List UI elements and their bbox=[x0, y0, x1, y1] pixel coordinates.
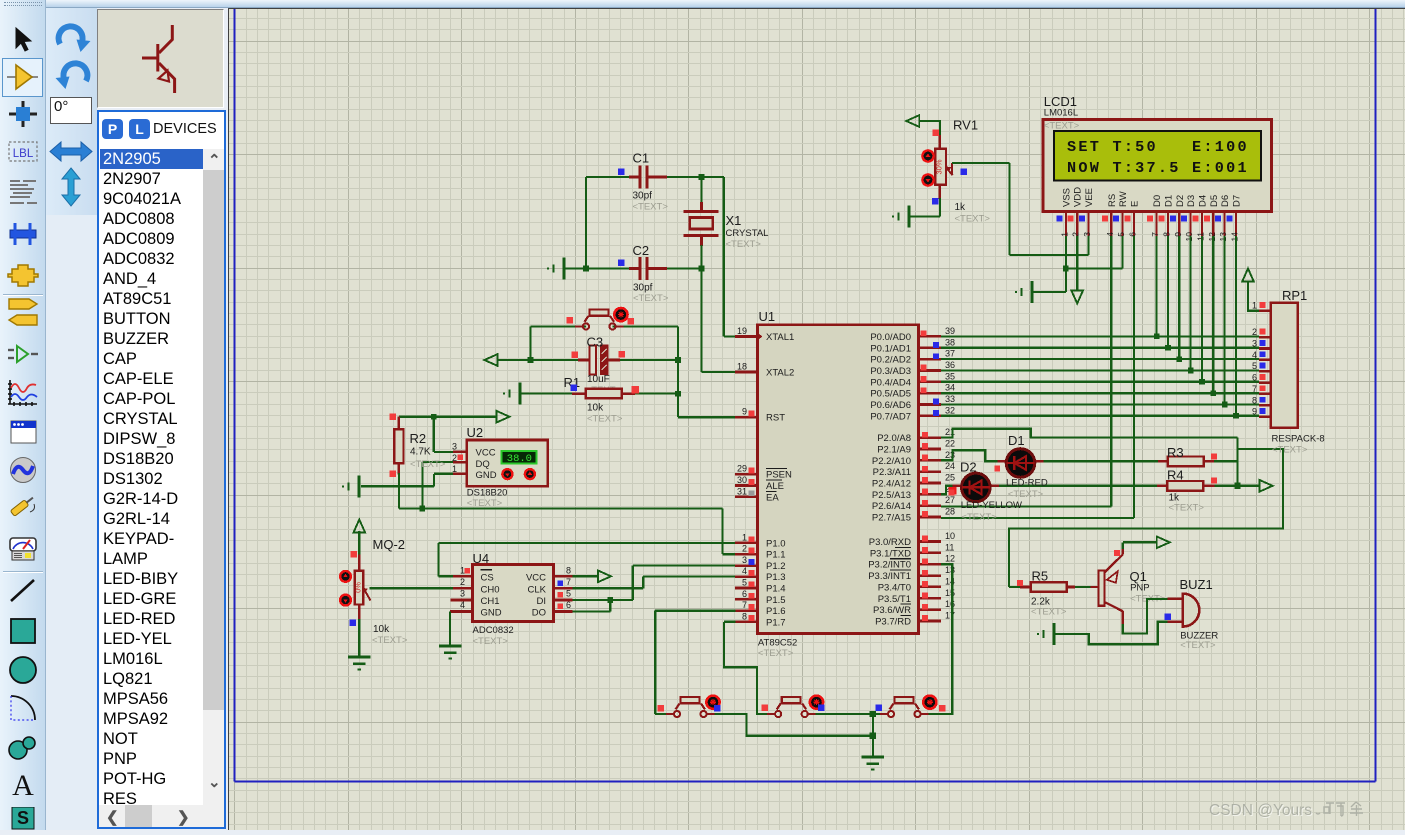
junction D5 node bbox=[1211, 390, 1217, 396]
svg-text:2: 2 bbox=[742, 544, 747, 554]
marker LCD pin 2 bbox=[1068, 216, 1074, 222]
marker R4 red bbox=[1211, 478, 1217, 484]
U1 pin 10 P3.0/RXD stub bbox=[919, 540, 942, 543]
marker U1 pin26 big red bbox=[948, 486, 956, 494]
junction DQ node bbox=[420, 506, 426, 512]
wire gnd to VSS bbox=[1032, 291, 1066, 293]
resistor R5 bbox=[1031, 582, 1067, 592]
svg-text:14: 14 bbox=[1230, 232, 1240, 242]
svg-text:28: 28 bbox=[945, 507, 955, 517]
resistor R3 bbox=[1168, 457, 1204, 467]
svg-text:1: 1 bbox=[742, 532, 747, 542]
svg-text:<TEXT>: <TEXT> bbox=[633, 202, 669, 213]
marker U1 left pin bbox=[749, 559, 755, 565]
wire button right bbox=[613, 325, 678, 327]
svg-text:10k: 10k bbox=[587, 403, 604, 414]
svg-text:39: 39 bbox=[945, 326, 955, 336]
toolbar icon mirror horizontal bbox=[48, 137, 94, 166]
node XTAL1 net: wire C1 left to plate bbox=[586, 176, 639, 178]
RP1 pin 2 stub bbox=[1259, 336, 1271, 339]
marker LCD pin 1 bbox=[1056, 216, 1062, 222]
wire R3 right bbox=[1204, 460, 1214, 463]
svg-text:VEE: VEE bbox=[1084, 188, 1095, 207]
respack RP1 body bbox=[1271, 303, 1298, 428]
wire buzzer bottom stub bbox=[1167, 621, 1182, 623]
toolbar icon component mode (selected) bbox=[6, 63, 40, 91]
svg-text:0%: 0% bbox=[354, 582, 363, 593]
svg-text:5: 5 bbox=[1252, 361, 1257, 371]
svg-text:33: 33 bbox=[945, 394, 955, 404]
wire D1 right to R3 bbox=[1035, 460, 1044, 462]
marker LCD pin 11 bbox=[1193, 216, 1199, 222]
svg-text:8: 8 bbox=[566, 565, 571, 575]
svg-text:7: 7 bbox=[1150, 232, 1160, 237]
marker U1 left pin bbox=[749, 479, 755, 485]
junction D0 node bbox=[1154, 334, 1160, 340]
U1 pin 5 P1.4 stub bbox=[735, 587, 758, 590]
marker K2 red bbox=[762, 705, 769, 712]
svg-text:MQ-2: MQ-2 bbox=[373, 537, 406, 552]
marker U1 left pin bbox=[749, 490, 755, 496]
wire buzzer top stub bbox=[1168, 598, 1183, 600]
wire R1 right to vertical bbox=[622, 393, 678, 395]
wire RV1 wiper drop bbox=[1008, 163, 1010, 255]
wire P0.7 to RP1 bbox=[941, 415, 1259, 417]
mcu U1 AT89C52 body bbox=[757, 325, 918, 634]
ground U4 bbox=[439, 645, 461, 648]
svg-text:3: 3 bbox=[452, 441, 457, 451]
U1 pin 23 P2.2/A10 stub bbox=[919, 459, 942, 462]
svg-text:RS: RS bbox=[1107, 194, 1118, 207]
marker U1 left pin bbox=[749, 468, 755, 474]
svg-text:7: 7 bbox=[566, 577, 571, 587]
U1 pin 37 P0.2/AD2 stub bbox=[919, 358, 942, 361]
push button K2 bbox=[767, 713, 775, 715]
svg-text:C3: C3 bbox=[587, 335, 604, 350]
svg-text:P0.5/AD5: P0.5/AD5 bbox=[870, 389, 911, 400]
svg-text:1: 1 bbox=[460, 565, 465, 575]
terminal arrow right (U2 vcc) bbox=[497, 411, 510, 423]
svg-text:24: 24 bbox=[945, 461, 955, 471]
terminal arrow right (R4) bbox=[1260, 480, 1273, 492]
U2 down button bbox=[502, 469, 512, 479]
wire P0.3 to RP1 bbox=[941, 369, 1259, 371]
wire ground drop buttons bbox=[872, 714, 874, 757]
toolbar icon 2d arc bbox=[6, 694, 40, 722]
LCD pin 4 stub bbox=[1110, 212, 1112, 236]
U1 pin 39 P0.0/AD0 stub bbox=[919, 335, 942, 338]
wire RV1 bottom bbox=[939, 185, 942, 199]
svg-text:P1.7: P1.7 bbox=[766, 617, 786, 628]
U1 pin 38 P0.1/AD1 stub bbox=[919, 346, 942, 349]
wire D1 drop bbox=[1167, 236, 1169, 348]
marker RP1 pin 3 bbox=[1260, 340, 1266, 346]
svg-text:<TEXT>: <TEXT> bbox=[726, 239, 762, 250]
wire RV1 top bbox=[919, 121, 940, 137]
ground Q1 bbox=[1053, 623, 1056, 645]
wire U4 DO bbox=[554, 610, 573, 613]
terminal arrow left (reset) bbox=[484, 354, 497, 366]
svg-text:1: 1 bbox=[1059, 232, 1069, 237]
wire D2 right to R4 bbox=[990, 485, 999, 487]
marker K2 blue bbox=[818, 705, 825, 712]
marker U1 right pin bbox=[921, 365, 927, 371]
marker U1 right pin bbox=[922, 593, 928, 599]
wire DQ riser to P1.1 bbox=[721, 509, 723, 555]
U1 pin 21 P2.0/A8 stub bbox=[919, 436, 942, 439]
wire U4 GND drop bbox=[449, 612, 451, 647]
U1 pin 24 P2.3/A11 stub bbox=[919, 470, 942, 473]
U1 pin 8 P1.7 stub bbox=[735, 620, 758, 623]
wire U4 GND stub bbox=[450, 610, 472, 613]
junction C2 left node bbox=[583, 266, 589, 272]
ground buttons bbox=[862, 756, 884, 759]
svg-text:DQ: DQ bbox=[476, 459, 490, 470]
toolbar icon generator bbox=[6, 456, 40, 484]
ground near C2 bbox=[563, 258, 566, 280]
wire Q1 emitter up bbox=[1122, 542, 1124, 549]
wire gnd to R1 bbox=[520, 393, 572, 395]
wire gnd to C2 bbox=[564, 267, 639, 269]
svg-text:D7: D7 bbox=[1232, 195, 1243, 207]
svg-text:17: 17 bbox=[945, 611, 955, 621]
svg-text:4: 4 bbox=[460, 600, 465, 610]
toolbar icon device pin bbox=[6, 341, 40, 369]
toolbar icon 2d text bbox=[6, 771, 40, 799]
wire P2.6 to RS bbox=[941, 505, 1111, 507]
RP1 pin 7 stub bbox=[1259, 393, 1271, 396]
RP1 pin 4 stub bbox=[1259, 359, 1271, 362]
U1 pin 6 P1.5 stub bbox=[735, 598, 758, 601]
svg-text:8: 8 bbox=[1162, 232, 1172, 237]
wire RP1 pin1 bbox=[1248, 281, 1259, 311]
toolbar icon mirror vertical bbox=[57, 167, 85, 207]
terminal arrow down (VDD) bbox=[1071, 291, 1083, 304]
svg-text:10uF: 10uF bbox=[587, 374, 610, 385]
marker C1 blue bbox=[618, 168, 625, 175]
svg-text:6: 6 bbox=[566, 600, 571, 610]
wire R1 right stub bbox=[622, 392, 635, 395]
marker U1 right pin bbox=[921, 376, 927, 382]
svg-text:2: 2 bbox=[1252, 327, 1257, 337]
marker LCD pin 6 bbox=[1125, 216, 1131, 222]
wire P2.5 to D2 bbox=[941, 486, 952, 495]
orientation toolbar bbox=[46, 8, 97, 215]
wire button3 right riser to P3.2 bbox=[925, 564, 952, 714]
wire U4 CLK bbox=[554, 587, 573, 590]
svg-text:RW: RW bbox=[1118, 191, 1129, 207]
svg-text:P1.2: P1.2 bbox=[766, 561, 786, 572]
svg-text:P2.5/A13: P2.5/A13 bbox=[872, 490, 911, 501]
marker R5 red bbox=[1017, 580, 1023, 586]
svg-text:RST: RST bbox=[766, 413, 785, 424]
wire VEE drop bbox=[1087, 236, 1089, 255]
ground MQ2 bbox=[348, 656, 370, 659]
marker C2 blue bbox=[618, 260, 625, 267]
marker U1 right pin bbox=[922, 432, 928, 438]
vertical scrollbar bbox=[203, 149, 224, 805]
preview PNP transistor symbol bbox=[97, 9, 224, 108]
toolbar icon 2d box bbox=[6, 617, 40, 645]
RP1 pin 9 stub bbox=[1259, 415, 1271, 418]
LCD pin 11 stub bbox=[1201, 212, 1203, 236]
wire P0.2 to RP1 bbox=[941, 358, 1259, 360]
svg-text:<TEXT>: <TEXT> bbox=[961, 512, 997, 523]
svg-text:<TEXT>: <TEXT> bbox=[410, 459, 446, 470]
marker LCD pin 7 bbox=[1147, 216, 1153, 222]
svg-text:35: 35 bbox=[945, 371, 955, 381]
junction R1 node bbox=[675, 391, 681, 397]
selected tool highlight box bbox=[2, 58, 43, 97]
toolbar icon 2d line bbox=[6, 577, 40, 605]
marker U1 left pin bbox=[749, 615, 755, 621]
svg-text:4: 4 bbox=[1105, 232, 1115, 237]
svg-text:CS: CS bbox=[481, 572, 494, 583]
capacitor C3 (electrolytic) bbox=[578, 359, 590, 362]
svg-text:<TEXT>: <TEXT> bbox=[1031, 607, 1067, 618]
svg-text:VCC: VCC bbox=[526, 572, 546, 583]
U1 pin 34 P0.5/AD5 stub bbox=[919, 392, 942, 395]
svg-text:11: 11 bbox=[945, 542, 954, 552]
svg-text:P2.6/A14: P2.6/A14 bbox=[872, 501, 911, 512]
component U4 ADC0832 body bbox=[473, 565, 554, 622]
wire X1 top lead bbox=[700, 177, 702, 202]
led D1 LED-RED bbox=[1006, 449, 1035, 478]
marker MQ2 blue bbox=[350, 619, 357, 626]
marker U1 right pin bbox=[922, 581, 928, 587]
wire D5 drop bbox=[1212, 236, 1214, 393]
svg-text:38.0: 38.0 bbox=[507, 453, 532, 465]
U1 pin 33 P0.6/AD6 stub bbox=[919, 403, 942, 406]
wire U2 VCC drop bbox=[433, 417, 435, 452]
pot MQ-2 bottom bbox=[358, 605, 361, 621]
svg-text:LED-RED: LED-RED bbox=[1006, 478, 1048, 489]
svg-text:14: 14 bbox=[945, 576, 955, 586]
LCD pin 1 stub bbox=[1065, 212, 1067, 236]
U1 pin 2 P1.1 stub bbox=[735, 553, 758, 556]
svg-text:P0.6/AD6: P0.6/AD6 bbox=[870, 400, 911, 411]
transistor Q1 base bar bbox=[1099, 571, 1105, 606]
wire button left vertical bbox=[529, 326, 531, 360]
marker RP1 pin 2 bbox=[1260, 329, 1266, 335]
LCD pin 12 stub bbox=[1212, 212, 1214, 236]
svg-text:12: 12 bbox=[1207, 232, 1217, 242]
marker U1 right pin bbox=[922, 547, 928, 553]
wire D7 drop bbox=[1235, 236, 1237, 416]
svg-text:EA: EA bbox=[766, 492, 779, 503]
MQ2 down button bbox=[340, 595, 351, 606]
svg-text:12: 12 bbox=[945, 554, 955, 564]
marker RP1 pin 1 bbox=[1260, 302, 1266, 308]
svg-text:<TEXT>: <TEXT> bbox=[633, 293, 669, 304]
wire D2 lead left bbox=[953, 485, 962, 487]
horizontal scrollbar bbox=[99, 805, 224, 827]
svg-text:37: 37 bbox=[945, 349, 955, 359]
svg-text:32: 32 bbox=[945, 405, 955, 415]
marker LCD pin 5 bbox=[1113, 216, 1119, 222]
wire gnd to buzzer bbox=[1054, 622, 1168, 645]
wire E drop bbox=[1133, 236, 1135, 518]
component U2 DS18B20 body bbox=[467, 440, 548, 486]
marker RP1 pin 9 bbox=[1260, 408, 1266, 414]
svg-text:P1.6: P1.6 bbox=[766, 606, 786, 617]
wire MQ2 wiper to CH0 bbox=[370, 587, 454, 589]
marker reset red1 bbox=[567, 317, 574, 324]
svg-text:<TEXT>: <TEXT> bbox=[1180, 640, 1216, 651]
marker U1 right pin bbox=[922, 489, 928, 495]
svg-text:P2.0/A8: P2.0/A8 bbox=[877, 433, 911, 444]
Q1 emitter arrowhead bbox=[1107, 571, 1118, 583]
svg-text:3: 3 bbox=[460, 589, 465, 599]
toolbar icon voltage probe bbox=[6, 492, 40, 520]
svg-text:P0.3/AD3: P0.3/AD3 bbox=[870, 366, 911, 377]
watermark CSDN bbox=[1209, 800, 1399, 822]
wire CLK riser to P1.3 bbox=[642, 577, 644, 589]
wire into XTAL1 pin bbox=[724, 335, 736, 337]
marker MQ2 red bbox=[350, 551, 357, 558]
wire Q1 collector to buzzer bbox=[1123, 599, 1168, 634]
wire R4 right bbox=[1203, 484, 1214, 487]
junction C3 node bbox=[675, 357, 681, 363]
toolbar icon graph mode bbox=[6, 379, 40, 407]
svg-text:ADC0832: ADC0832 bbox=[473, 625, 514, 636]
U2 display 38.0 bbox=[502, 451, 537, 464]
toolbar icon rotate clockwise bbox=[54, 21, 92, 56]
resistor R1 bbox=[586, 389, 622, 399]
wire DQ long run bbox=[399, 507, 723, 509]
pot MQ-2 body bbox=[355, 571, 364, 605]
U1 pin 26 P2.5/A13 stub bbox=[919, 493, 942, 496]
sheet border bottom bbox=[235, 781, 1376, 783]
buzzer BUZ1 bbox=[1183, 594, 1200, 627]
RP1 pin 1 stub bbox=[1259, 309, 1271, 312]
RP1 pin 6 stub bbox=[1259, 381, 1271, 384]
svg-text:P2.3/A11: P2.3/A11 bbox=[873, 467, 911, 478]
svg-text:27: 27 bbox=[945, 495, 955, 505]
svg-text:PNP: PNP bbox=[1130, 583, 1150, 594]
wire R5 to Q1 base bbox=[1066, 586, 1075, 589]
U1 pin 18 XTAL2 stub bbox=[735, 371, 758, 374]
sheet border left bbox=[234, 9, 236, 782]
svg-text:4: 4 bbox=[1252, 350, 1257, 360]
svg-text:XTAL2: XTAL2 bbox=[766, 368, 794, 379]
marker K3 blue bbox=[875, 705, 882, 712]
svg-text:P0.2/AD2: P0.2/AD2 bbox=[870, 355, 911, 366]
junction VSS node bbox=[1063, 266, 1069, 272]
toolbar icon junction dot mode bbox=[6, 100, 40, 128]
marker D1 red bbox=[994, 466, 1000, 472]
button K1 actuator bbox=[706, 696, 719, 709]
svg-text:VSS: VSS bbox=[1061, 188, 1072, 207]
marker C3 red right bbox=[619, 351, 626, 358]
marker U4 pin5 red bbox=[558, 592, 564, 598]
svg-text:P2.2/A10: P2.2/A10 bbox=[872, 456, 911, 467]
marker R3 red bbox=[1211, 454, 1217, 460]
wire C3 right to vertical bbox=[608, 359, 678, 361]
wire R2 bottom bbox=[398, 463, 401, 474]
LCD pin 7 stub bbox=[1155, 212, 1157, 236]
svg-text:C2: C2 bbox=[633, 243, 650, 258]
marker U1 left pin bbox=[749, 411, 755, 417]
wire gnd to U2 bbox=[361, 485, 434, 487]
svg-text:P3.5/T1: P3.5/T1 bbox=[878, 594, 911, 605]
ground near R1 bbox=[519, 383, 522, 405]
marker K1 blue bbox=[714, 705, 721, 712]
svg-text:X1: X1 bbox=[726, 213, 742, 228]
U1 pin 27 P2.6/A14 stub bbox=[919, 504, 942, 507]
svg-text:16: 16 bbox=[945, 599, 955, 609]
svg-text:CLK: CLK bbox=[528, 584, 547, 595]
U2 up button bbox=[525, 469, 535, 479]
svg-text:SET T:50 E:100: SET T:50 E:100 bbox=[1067, 138, 1249, 156]
svg-text:36: 36 bbox=[945, 360, 955, 370]
wire into XTAL2 pin bbox=[702, 371, 736, 373]
junction D7 node bbox=[1233, 413, 1239, 419]
svg-text:GND: GND bbox=[476, 470, 497, 481]
marker RP1 pin 5 bbox=[1260, 363, 1266, 369]
junction D3 node bbox=[1188, 368, 1194, 374]
svg-text:D4: D4 bbox=[1198, 195, 1209, 207]
marker R2 top red bbox=[390, 413, 397, 420]
svg-text:<TEXT>: <TEXT> bbox=[758, 648, 794, 659]
marker U1 right pin bbox=[922, 604, 928, 610]
junction DI/DO node bbox=[608, 597, 614, 603]
marker U1 right pin bbox=[922, 615, 928, 621]
junction bypass node bbox=[870, 733, 876, 739]
marker LCD pin 3 bbox=[1079, 216, 1085, 222]
marker C3 red left bbox=[572, 351, 579, 358]
capacitor C2 bbox=[638, 257, 641, 280]
wire R3R4 vertical bbox=[1236, 438, 1238, 486]
svg-text:5: 5 bbox=[566, 589, 571, 599]
marker U1 right pin bbox=[922, 466, 928, 472]
marker RP1 pin 7 bbox=[1260, 385, 1266, 391]
svg-text:3: 3 bbox=[1082, 232, 1092, 237]
wire D1 lead left bbox=[997, 460, 1006, 462]
svg-text:RESPACK-8: RESPACK-8 bbox=[1272, 434, 1325, 445]
svg-text:<TEXT>: <TEXT> bbox=[1044, 121, 1080, 132]
toolbar icon tape recorder window bbox=[6, 418, 40, 446]
button RESET bbox=[575, 325, 583, 327]
U1 pin 7 P1.6 stub bbox=[735, 609, 758, 612]
wire P0.0 to RP1 bbox=[941, 335, 1259, 337]
wire C1 right to XTAL1 column bbox=[647, 176, 724, 178]
marker U1 right pin bbox=[933, 399, 939, 405]
wire RV1 wiper out bbox=[952, 162, 1009, 164]
U1 pin 29 PSEN stub bbox=[735, 473, 758, 476]
marker U1 left pin bbox=[749, 593, 755, 599]
svg-text:P3.3/INT1: P3.3/INT1 bbox=[868, 571, 911, 582]
marker U1 left pin bbox=[749, 570, 755, 576]
RP1 pin 3 stub bbox=[1259, 347, 1271, 350]
marker BUZ1 blue bbox=[1165, 614, 1172, 621]
button P (pick devices) bbox=[102, 119, 123, 139]
marker U1 left pin bbox=[749, 581, 755, 587]
wire RV1 to VEE bbox=[1010, 254, 1089, 256]
wire P1.6 drop bbox=[654, 611, 656, 714]
junction X1 bottom node bbox=[699, 266, 705, 272]
lcd LCD1 body bbox=[1043, 120, 1272, 212]
marker U4 pin7 blue bbox=[558, 581, 564, 587]
svg-text:<TEXT>: <TEXT> bbox=[1272, 445, 1308, 456]
wire into R5 bbox=[1009, 586, 1020, 588]
junction D4 node bbox=[1199, 379, 1205, 385]
svg-text:<TEXT>: <TEXT> bbox=[955, 214, 991, 225]
marker U1 right pin bbox=[922, 536, 928, 542]
U1 pin 25 P2.4/A12 stub bbox=[919, 482, 942, 485]
junction VCC node bbox=[431, 414, 437, 420]
svg-text:U4: U4 bbox=[473, 551, 490, 566]
